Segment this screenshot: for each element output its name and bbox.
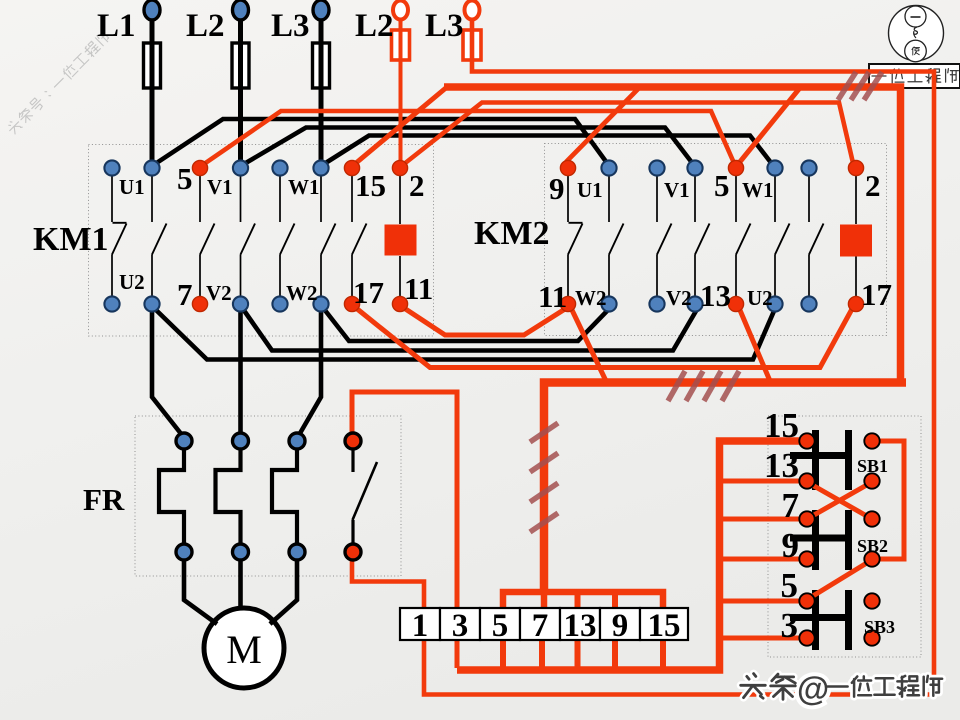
label box 位工程师 xyxy=(869,64,960,88)
terminal FR pole3 bottom xyxy=(289,544,305,560)
terminal FR pole2 top xyxy=(233,433,249,449)
terminal KM1 V2 (bottom) xyxy=(233,296,248,311)
stub KM coil bus into terminal 7 xyxy=(541,588,548,610)
supply terminal L2 xyxy=(233,0,249,20)
terminal SB row 13 right xyxy=(864,473,879,488)
terminal KM2 W2 (bottom) xyxy=(601,296,616,311)
KM2 coil wire top xyxy=(855,176,857,224)
svg-text:V1: V1 xyxy=(664,178,690,202)
contactor KM2 pole 9-11 xyxy=(567,176,569,222)
svg-text:13: 13 xyxy=(764,446,799,485)
terminal KM2 W1 (top) xyxy=(767,160,782,175)
wire KM1 W2 to KM2 W2 (lower bus) xyxy=(324,309,607,341)
terminal KM1 spare (bottom) xyxy=(104,296,119,311)
thick top bus and right-side drop xyxy=(444,87,901,383)
svg-text:M: M xyxy=(226,627,262,672)
terminal SB row 7 right xyxy=(864,511,879,526)
phase crossing hatches on control bus xyxy=(668,371,685,401)
svg-text:L3: L3 xyxy=(271,8,310,44)
terminal SB row 15 left xyxy=(799,433,814,448)
button SB1 contacts xyxy=(812,430,819,490)
terminal KM2 V1 (top) xyxy=(687,160,702,175)
svg-text:11: 11 xyxy=(538,279,567,314)
coil KM1 xyxy=(385,225,417,256)
wire KM2 13 to control bus xyxy=(740,309,771,381)
wire KM1 W1 to KM2 W1 (upper bus) xyxy=(324,136,772,165)
terminal SB row 9 right xyxy=(864,551,879,566)
phase crossing hatches top-right xyxy=(838,72,856,100)
stub below terminal 13 xyxy=(575,639,581,671)
svg-text:1: 1 xyxy=(412,608,429,644)
KM1 coil wire bottom xyxy=(399,256,401,296)
button SB2 contacts xyxy=(812,510,819,570)
svg-text:15: 15 xyxy=(355,168,386,203)
terminal KM2 2 (top) xyxy=(848,160,863,175)
svg-text:17: 17 xyxy=(861,277,892,312)
terminal KM2 U2 (bottom) xyxy=(767,296,782,311)
red bus above terminal strip xyxy=(503,592,663,610)
wire SB row 3 xyxy=(720,636,802,641)
terminal KM2 5 (top) xyxy=(728,160,743,175)
watermark top-left 头条号：一位工程师 xyxy=(6,29,112,135)
svg-text:SB1: SB1 xyxy=(857,456,888,476)
wire KM1 U2 to FR pole1 xyxy=(152,310,182,435)
wire KM1 V1 to KM2 V1 (upper bus) xyxy=(244,128,693,165)
terminal KM2 spare2 (bottom) xyxy=(801,296,816,311)
svg-text:L2: L2 xyxy=(355,8,394,44)
contactor KM1 pole 15-17 xyxy=(351,176,353,222)
KM1 dashed box xyxy=(89,145,434,337)
svg-text:15: 15 xyxy=(648,608,681,644)
terminal strip cell 9 xyxy=(600,608,640,640)
svg-text:V2: V2 xyxy=(666,286,692,310)
stub below terminal 5 xyxy=(500,639,506,671)
svg-text:V1: V1 xyxy=(207,175,233,199)
terminal KM1 U2 (bottom) xyxy=(144,296,159,311)
terminal KM1 W2 (bottom) xyxy=(313,296,328,311)
svg-text:U2: U2 xyxy=(119,270,145,294)
svg-text:U1: U1 xyxy=(119,175,145,199)
svg-text:7: 7 xyxy=(782,486,800,525)
wire L3' fuse down then control loop via right edge and bottom to terminal 1 and FR xyxy=(352,19,934,695)
svg-text:U2: U2 xyxy=(747,286,773,310)
terminal strip cell 7 xyxy=(520,608,560,640)
wire KM1 V2 to FR pole2 xyxy=(238,310,243,434)
wire L2' to KM1 terminal 2 xyxy=(399,19,403,161)
svg-text:13: 13 xyxy=(700,278,731,313)
terminal KM1 15 (top) xyxy=(344,160,359,175)
wire SB row 9 xyxy=(720,557,802,562)
FR heater element 3 xyxy=(272,448,297,544)
terminal KM1 spare2 (bottom) xyxy=(272,296,287,311)
thick control bus to SB area xyxy=(544,383,906,592)
red fuse FU4 on L2' xyxy=(392,30,410,60)
terminal KM1 W1 (top) xyxy=(313,160,328,175)
svg-text:V2: V2 xyxy=(206,281,232,305)
wire KM1 U2 to KM2 U2 (lower bus) xyxy=(155,309,774,360)
wire KM2 11 to control bus xyxy=(572,309,607,381)
contactor KM1 pole W1-W2 xyxy=(320,176,322,222)
contactor KM1 pole V1-V2 xyxy=(240,176,242,222)
svg-text:L3: L3 xyxy=(425,8,464,44)
terminal KM2 spare (bottom) xyxy=(649,296,664,311)
terminal KM2 V2 (bottom) xyxy=(687,296,702,311)
terminal KM1 17 (bottom) xyxy=(344,296,359,311)
terminal KM1 spare2 (top) xyxy=(272,160,287,175)
svg-text:5: 5 xyxy=(492,608,509,644)
terminal KM1 2 (top) xyxy=(392,160,407,175)
KM2 dashed box xyxy=(545,144,887,336)
contactor KM2 pole spare2 xyxy=(808,176,810,222)
terminal strip cell 3 xyxy=(440,608,480,640)
svg-text:SB3: SB3 xyxy=(864,617,895,637)
contactor KM2 pole 5-13 xyxy=(735,176,737,222)
svg-text:5: 5 xyxy=(177,161,193,196)
terminal strip cell 1 xyxy=(400,608,440,640)
terminal SB row 3 right xyxy=(864,630,879,645)
wire SB1 to SB2 right side loop xyxy=(879,441,904,559)
wire SB row 5 xyxy=(720,599,802,604)
svg-text:15: 15 xyxy=(764,406,799,445)
fuse FU3 on L3 xyxy=(313,43,330,88)
contactor KM2 pole W1-U2 xyxy=(774,176,776,222)
contactor KM2 pole U1-W2 xyxy=(608,176,610,222)
wire SB row 7 xyxy=(720,517,802,522)
button SB3 contacts xyxy=(812,590,819,650)
SB dashed box xyxy=(768,416,921,657)
stub to terminal 9 xyxy=(612,592,618,610)
terminal KM2 spare (top) xyxy=(649,160,664,175)
terminal FR pole3 top xyxy=(289,433,305,449)
supply terminal L1 xyxy=(144,0,160,20)
svg-text:KM2: KM2 xyxy=(474,215,550,252)
wire FR3 to motor xyxy=(270,560,297,624)
motor M circle xyxy=(204,608,284,688)
contactor KM1 pole U1-U2 xyxy=(151,176,153,222)
terminal SB row 5 right xyxy=(864,593,879,608)
red bus below terminal strip xyxy=(457,441,801,670)
terminal KM2 13 (bottom) xyxy=(728,296,743,311)
wire SB2-9 right to SB3-5 left xyxy=(808,561,870,599)
wire KM1 W2 to FR pole3 xyxy=(299,310,321,435)
wire FR trip top to terminal 3 via vertical xyxy=(352,392,457,668)
svg-text:U1: U1 xyxy=(577,178,603,202)
contactor KM1 pole spare2 xyxy=(279,176,281,222)
stub to terminal 13 xyxy=(575,592,581,610)
svg-text:7: 7 xyxy=(532,608,549,644)
wire L3 supply to KM1 W1 xyxy=(319,18,324,161)
terminal SB row 3 left xyxy=(799,630,814,645)
red fuse FU5 on L3' xyxy=(463,30,481,60)
contactor KM2 pole spare xyxy=(656,176,658,222)
terminal FR pole1 top xyxy=(176,433,192,449)
terminal KM2 11 (bottom) xyxy=(560,296,575,311)
terminal KM2 17 (bottom) xyxy=(848,296,863,311)
contactor KM1 pole 5-7 xyxy=(199,176,201,222)
terminal KM1 11 (bottom) xyxy=(392,296,407,311)
wire L1 supply to KM1 U1 xyxy=(150,18,155,161)
terminal FR pole4 bottom xyxy=(345,544,361,560)
svg-text:13: 13 xyxy=(564,608,597,644)
svg-text:L2: L2 xyxy=(186,8,225,44)
wire KM1 terminal 5 to KM2 terminal 5 xyxy=(204,111,734,164)
terminal FR pole4 top xyxy=(345,433,361,449)
terminal FR pole2 bottom xyxy=(233,544,249,560)
logo circle top-right xyxy=(889,6,944,62)
svg-text:9: 9 xyxy=(549,171,565,206)
wire KM1 terminal 2 to KM2 terminal 2 xyxy=(404,103,853,165)
svg-text:W1: W1 xyxy=(742,178,774,202)
watermark bottom-right 头条 @一位工程师 xyxy=(741,674,766,699)
wire FR2 to motor xyxy=(238,560,243,608)
terminal FR pole1 bottom xyxy=(176,544,192,560)
wire FR1 to motor xyxy=(184,560,217,624)
wire KM1 V2 to KM2 V2 (lower bus) xyxy=(243,309,696,351)
KM1 coil wire top xyxy=(399,176,401,224)
svg-text:W2: W2 xyxy=(286,281,318,305)
FR trip contact (NC) xyxy=(351,448,354,472)
terminal KM1 5 (top) xyxy=(192,160,207,175)
svg-text:2: 2 xyxy=(865,168,881,203)
wire thick bus to KM2 terminal 9 xyxy=(566,88,639,162)
KM2 coil wire bottom xyxy=(855,256,857,296)
control terminal L3' xyxy=(465,1,480,20)
terminal strip cell 13 xyxy=(560,608,600,640)
svg-text:SB2: SB2 xyxy=(857,536,888,556)
terminal SB row 7 left xyxy=(799,511,814,526)
terminal KM1 spare (top) xyxy=(104,160,119,175)
coil KM2 xyxy=(840,225,872,257)
terminal SB row 15 right xyxy=(864,433,879,448)
svg-text:W2: W2 xyxy=(575,286,607,310)
svg-text:5: 5 xyxy=(781,566,799,605)
fuse FU2 on L2 xyxy=(232,43,249,88)
svg-text:2: 2 xyxy=(409,168,425,203)
terminal KM2 U1 (top) xyxy=(601,160,616,175)
terminal KM2 9 (top) xyxy=(560,160,575,175)
stub below terminal 9 xyxy=(612,639,618,671)
FR heater element 2 xyxy=(216,448,241,544)
fuse FU1 on L1 xyxy=(144,43,161,88)
terminal SB row 5 left xyxy=(799,593,814,608)
terminal KM2 spare2 (top) xyxy=(801,160,816,175)
wire SB row 13 xyxy=(720,479,802,484)
stub below terminal 7 xyxy=(539,639,545,671)
terminal SB row 13 left xyxy=(799,473,814,488)
terminal KM1 7 (bottom) xyxy=(192,296,207,311)
wire KM1 17 to KM2 17 xyxy=(356,308,852,368)
terminal strip cell 5 xyxy=(480,608,520,640)
wire KM1 terminal 15 to thick top bus xyxy=(356,87,447,163)
svg-text:11: 11 xyxy=(404,271,433,306)
svg-text:W1: W1 xyxy=(288,175,320,199)
svg-text:L1: L1 xyxy=(97,8,136,44)
terminal SB row 9 left xyxy=(799,551,814,566)
crossover wire SB1-13 right to SB2-7 left xyxy=(807,482,872,519)
svg-text:3: 3 xyxy=(452,608,469,644)
svg-text:3: 3 xyxy=(781,606,799,645)
svg-text:FR: FR xyxy=(83,482,125,517)
svg-text:9: 9 xyxy=(612,608,629,644)
stub below terminal 15 xyxy=(660,639,666,671)
svg-text:7: 7 xyxy=(177,277,193,312)
wire KM2 terminal 5 to top thick bus xyxy=(739,89,799,163)
svg-text:9: 9 xyxy=(782,526,800,565)
svg-text:@: @ xyxy=(797,670,829,707)
FR dashed box xyxy=(135,416,401,576)
svg-text:5: 5 xyxy=(714,168,730,203)
wire KM1 U1 to KM2 U1 (upper bus) xyxy=(155,119,607,164)
wire KM1 11 to KM2 11 xyxy=(404,308,565,335)
terminal KM1 U1 (top) xyxy=(144,160,159,175)
supply terminal L3 xyxy=(313,0,329,20)
FR heater element 1 xyxy=(159,448,184,544)
svg-text:KM1: KM1 xyxy=(33,221,109,258)
wire L2 supply to KM1 V1 xyxy=(238,18,243,161)
contactor KM1 pole spare xyxy=(111,176,113,222)
svg-text:17: 17 xyxy=(353,275,384,310)
terminal KM1 V1 (top) xyxy=(233,160,248,175)
crossover wire SB1-13 to SB2-7 right xyxy=(807,482,872,519)
control terminal L2' xyxy=(393,1,408,20)
phase crossing hatches on vertical control wire xyxy=(530,423,558,442)
terminal strip cell 15 xyxy=(640,608,688,640)
contactor KM2 pole V1-V2 xyxy=(694,176,696,222)
